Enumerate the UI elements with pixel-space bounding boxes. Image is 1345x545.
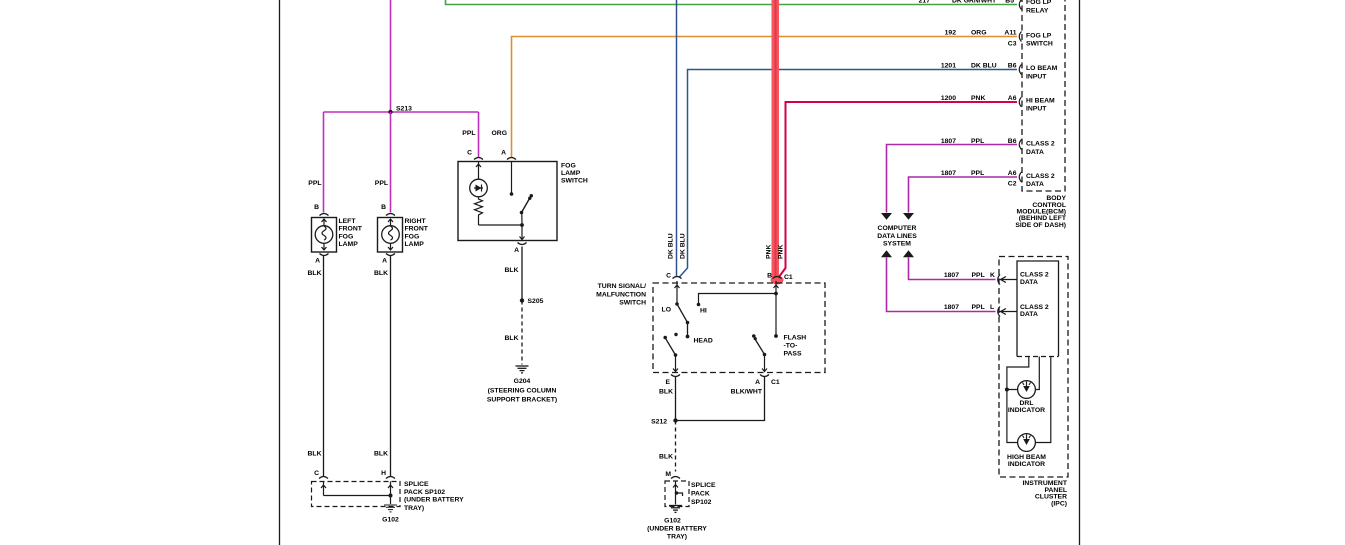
svg-text:1807: 1807 bbox=[941, 170, 956, 177]
head switch lower blade bbox=[674, 333, 677, 336]
wire BLK/WHT switch A to S212 bbox=[676, 377, 765, 421]
svg-text:B6: B6 bbox=[1008, 63, 1017, 70]
svg-text:ORG: ORG bbox=[971, 30, 986, 37]
fog switch indicator LED symbol bbox=[474, 185, 483, 192]
svg-text:(UNDER BATTERY: (UNDER BATTERY bbox=[404, 497, 464, 504]
svg-text:FLASH: FLASH bbox=[784, 335, 807, 342]
splice left junction dot bbox=[389, 494, 393, 498]
svg-text:L: L bbox=[990, 304, 994, 311]
flash-to-pass contact dot bbox=[774, 334, 778, 338]
svg-text:RIGHT: RIGHT bbox=[405, 218, 427, 225]
svg-text:FOG: FOG bbox=[405, 233, 420, 240]
splice left bus bbox=[324, 495, 391, 497]
svg-text:HI BEAM: HI BEAM bbox=[1026, 97, 1055, 104]
svg-text:PPL: PPL bbox=[972, 272, 985, 279]
svg-text:(STEERING COLUMN: (STEERING COLUMN bbox=[488, 388, 557, 395]
right fog lamp box bbox=[378, 218, 403, 253]
highlight blob at connector B bbox=[771, 276, 784, 285]
svg-text:DK BLU: DK BLU bbox=[680, 233, 687, 259]
svg-text:FOG: FOG bbox=[561, 162, 576, 169]
connector arc A fog lamp switch bbox=[507, 158, 516, 160]
splice pack SP102 left dashed box bbox=[312, 482, 401, 507]
svg-text:RELAY: RELAY bbox=[1026, 8, 1049, 15]
connector arc L bbox=[998, 307, 1000, 317]
fog lamp switch box bbox=[458, 162, 557, 241]
wire ORG from BCM fog lp switch row to switch A bbox=[512, 37, 1018, 158]
svg-text:LO: LO bbox=[662, 307, 671, 314]
splice left C entry arrow bbox=[321, 482, 326, 496]
svg-text:SWITCH: SWITCH bbox=[561, 178, 588, 185]
left fog lamp pin arrow B bbox=[322, 219, 327, 226]
svg-text:A: A bbox=[514, 247, 519, 254]
node S212 bbox=[673, 418, 677, 422]
svg-text:B: B bbox=[767, 273, 772, 280]
connector arc A bottom fog switch bbox=[518, 243, 527, 245]
svg-text:PNK: PNK bbox=[778, 245, 785, 259]
svg-text:PPL: PPL bbox=[308, 180, 321, 187]
svg-text:A: A bbox=[315, 258, 320, 265]
svg-text:DATA: DATA bbox=[1020, 279, 1038, 286]
HIGH BEAM indicator lamp bbox=[1018, 434, 1036, 452]
svg-text:A: A bbox=[755, 379, 760, 386]
svg-text:DATA: DATA bbox=[1020, 311, 1038, 318]
svg-text:LAMP: LAMP bbox=[405, 241, 425, 248]
svg-text:PNK: PNK bbox=[971, 95, 985, 102]
wire BLK dashed S205 to G204 bbox=[521, 301, 523, 365]
svg-text:CLASS 2: CLASS 2 bbox=[1026, 173, 1055, 180]
left fog lamp bulb bbox=[315, 226, 333, 244]
connector arc B left fog lamp bbox=[320, 214, 329, 216]
wire PPL from top to S213 bbox=[390, 0, 392, 112]
svg-text:C3: C3 bbox=[1008, 41, 1017, 48]
svg-text:A11: A11 bbox=[1004, 30, 1016, 37]
svg-text:H: H bbox=[381, 470, 386, 477]
svg-text:SPLICE: SPLICE bbox=[404, 481, 429, 488]
svg-text:CLASS 2: CLASS 2 bbox=[1020, 272, 1049, 279]
svg-text:1807: 1807 bbox=[944, 304, 959, 311]
svg-text:FRONT: FRONT bbox=[405, 226, 429, 233]
splice left H entry arrow bbox=[388, 482, 393, 505]
ground G204 bbox=[516, 366, 529, 373]
fog switch exit arrow to A bbox=[520, 237, 525, 240]
svg-text:217: 217 bbox=[919, 0, 931, 5]
HEAD contact dot bbox=[686, 335, 690, 339]
svg-text:M: M bbox=[665, 471, 671, 478]
svg-text:1807: 1807 bbox=[944, 272, 959, 279]
svg-text:DATA: DATA bbox=[1026, 181, 1044, 188]
svg-text:SPLICE: SPLICE bbox=[691, 482, 716, 489]
svg-text:TRAY): TRAY) bbox=[404, 505, 424, 512]
svg-text:DK BLU: DK BLU bbox=[971, 63, 997, 70]
LO-HEAD wiper blade bbox=[677, 304, 688, 336]
wire PNK 2 hi beam input bbox=[779, 102, 1018, 278]
arrow down data line 1 bbox=[881, 213, 892, 220]
left fog lamp pin arrow A bbox=[322, 244, 327, 251]
svg-text:SWITCH: SWITCH bbox=[619, 300, 646, 307]
splice right entry arrow and bus bbox=[673, 481, 678, 505]
svg-text:TRAY): TRAY) bbox=[667, 534, 687, 541]
svg-text:BLK: BLK bbox=[659, 389, 673, 396]
wire PPL class 2 data A6 bbox=[909, 177, 1018, 213]
frame left border bbox=[279, 0, 281, 545]
svg-text:BLK: BLK bbox=[374, 451, 388, 458]
right fog lamp filament bbox=[389, 226, 393, 240]
svg-text:E: E bbox=[665, 379, 670, 386]
BCM dashed box bbox=[1022, 0, 1065, 191]
B junction dot bbox=[774, 292, 778, 296]
connector arc K bbox=[998, 275, 1000, 285]
connector arc A right fog lamp bbox=[386, 254, 395, 256]
wire PPL class 2 data L bbox=[887, 258, 996, 312]
splice right side stub bbox=[676, 493, 683, 496]
connector arc class2 A6 bbox=[1019, 172, 1021, 182]
wire BLK fog switch A to S205 bbox=[521, 247, 523, 301]
IPC outer dashed box bbox=[999, 257, 1068, 478]
wire PPL S213 horizontal bus bbox=[324, 111, 479, 113]
connector arc B turn switch bbox=[773, 277, 782, 279]
IPC lamp feed wiring left bbox=[1007, 357, 1029, 443]
svg-text:B: B bbox=[381, 204, 386, 211]
svg-text:SYSTEM: SYSTEM bbox=[883, 241, 911, 248]
connector arc M splice right bbox=[671, 477, 680, 479]
svg-text:PACK SP102: PACK SP102 bbox=[404, 489, 445, 496]
LO contact dot bbox=[675, 302, 679, 306]
flash-to-pass blade bbox=[755, 339, 765, 355]
svg-text:CLASS 2: CLASS 2 bbox=[1020, 304, 1049, 311]
connector arc A left fog lamp bbox=[320, 254, 329, 256]
svg-text:BLK: BLK bbox=[308, 270, 322, 277]
left fog lamp filament bbox=[322, 226, 326, 240]
svg-text:C: C bbox=[314, 470, 319, 477]
svg-text:BLK: BLK bbox=[374, 270, 388, 277]
fog switch ORG contact wire and dot bbox=[511, 162, 513, 194]
right fog lamp pin arrow B bbox=[388, 219, 393, 226]
IPC K lead with arrow bbox=[999, 277, 1017, 283]
connector arc A bottom turn switch bbox=[760, 375, 769, 377]
ground G102 right bbox=[669, 505, 682, 507]
svg-text:C1: C1 bbox=[771, 379, 780, 386]
turn signal switch dashed box bbox=[653, 283, 825, 373]
svg-text:LEFT: LEFT bbox=[339, 218, 357, 225]
head switch wire to E with exit arrow bbox=[673, 355, 678, 372]
svg-text:ORG: ORG bbox=[492, 130, 507, 137]
svg-text:BLK/WHT: BLK/WHT bbox=[731, 389, 763, 396]
svg-text:G102: G102 bbox=[382, 516, 399, 523]
connector arc lo beam B6 bbox=[1019, 65, 1021, 75]
svg-text:BLK: BLK bbox=[308, 451, 322, 458]
connector arc fog lp relay bbox=[1019, 0, 1021, 10]
svg-text:INPUT: INPUT bbox=[1026, 74, 1047, 81]
connector arc C turn switch bbox=[673, 277, 682, 279]
svg-text:FOG LP: FOG LP bbox=[1026, 32, 1052, 39]
wire BLK right fog lamp to splice H bbox=[390, 256, 392, 477]
svg-text:PPL: PPL bbox=[972, 304, 985, 311]
svg-text:BLK: BLK bbox=[659, 454, 673, 461]
turn switch C entry wire arrow bbox=[675, 281, 680, 304]
frame right border bbox=[1079, 0, 1081, 545]
IPC inner class 2 box bbox=[1017, 261, 1059, 357]
svg-text:1200: 1200 bbox=[941, 95, 956, 102]
connector arc fog lp switch A11 bbox=[1019, 32, 1021, 42]
svg-text:INDICATOR: INDICATOR bbox=[1008, 407, 1045, 414]
DRL row wire bbox=[1007, 357, 1039, 390]
svg-text:(IPC): (IPC) bbox=[1051, 500, 1067, 507]
svg-text:A6: A6 bbox=[1008, 95, 1017, 102]
connector arc H splice left bbox=[386, 477, 395, 479]
wire DK BLU 2 lo beam input bbox=[679, 70, 1017, 278]
svg-text:INPUT: INPUT bbox=[1026, 106, 1047, 113]
svg-text:C2: C2 bbox=[1008, 181, 1017, 188]
svg-text:1807: 1807 bbox=[941, 138, 956, 145]
svg-text:C1: C1 bbox=[784, 274, 793, 281]
wire DK GRN/WHT fog lp relay row bbox=[446, 0, 1018, 5]
svg-text:LO BEAM: LO BEAM bbox=[1026, 65, 1058, 72]
connector arc hi beam A6 bbox=[1019, 97, 1021, 107]
wire PPL to right fog lamp B bbox=[390, 112, 392, 213]
HI contact dot and tie to B bbox=[697, 303, 701, 307]
svg-text:G102: G102 bbox=[664, 518, 681, 525]
HIGH BEAM row wire bbox=[1035, 357, 1050, 443]
svg-text:C: C bbox=[666, 273, 671, 280]
svg-text:B5: B5 bbox=[1005, 0, 1014, 5]
arrow up data line 3 bbox=[881, 250, 892, 257]
svg-text:HEAD: HEAD bbox=[694, 338, 713, 345]
svg-text:DATA LINES: DATA LINES bbox=[877, 233, 917, 240]
right fog lamp bulb bbox=[382, 226, 400, 244]
svg-text:PPL: PPL bbox=[971, 138, 984, 145]
svg-text:K: K bbox=[990, 272, 995, 279]
connector arc E bottom turn switch bbox=[671, 375, 680, 377]
svg-text:192: 192 bbox=[945, 30, 957, 37]
svg-text:HI: HI bbox=[700, 308, 707, 315]
svg-text:SWITCH: SWITCH bbox=[1026, 41, 1053, 48]
svg-text:LAMP: LAMP bbox=[561, 170, 581, 177]
fog switch blade bbox=[522, 199, 530, 213]
connector arc C fog lamp switch bbox=[474, 158, 483, 160]
svg-text:COMPUTER: COMPUTER bbox=[878, 225, 917, 232]
svg-text:-TO-: -TO- bbox=[784, 343, 798, 350]
ground G102 left bbox=[384, 504, 397, 506]
connector arc B right fog lamp bbox=[386, 214, 395, 216]
svg-text:PASS: PASS bbox=[784, 351, 802, 358]
svg-text:S205: S205 bbox=[528, 298, 544, 305]
wire PNK 1 from top to switch B (highlighted) bbox=[775, 0, 777, 277]
left fog lamp box bbox=[312, 218, 337, 253]
svg-text:CLASS 2: CLASS 2 bbox=[1026, 141, 1055, 148]
wire BLK left fog lamp to splice C bbox=[323, 256, 325, 477]
fog switch bottom wire to A bbox=[479, 225, 523, 241]
connector arc class2 B6 bbox=[1019, 140, 1021, 150]
svg-text:S212: S212 bbox=[651, 419, 667, 426]
svg-text:B6: B6 bbox=[1008, 138, 1017, 145]
right fog lamp pin arrow A bbox=[388, 244, 393, 251]
wire DK BLU 1 from top to switch C bbox=[676, 0, 678, 276]
svg-text:PPL: PPL bbox=[462, 130, 475, 137]
node S213 bbox=[388, 110, 392, 114]
svg-text:A: A bbox=[382, 258, 387, 265]
wire PPL to left fog lamp B bbox=[323, 112, 325, 213]
svg-text:MALFUNCTION: MALFUNCTION bbox=[596, 291, 646, 298]
svg-text:S213: S213 bbox=[396, 105, 412, 112]
svg-text:B: B bbox=[314, 204, 319, 211]
fog switch resistor bbox=[475, 197, 483, 225]
svg-text:(UNDER BATTERY: (UNDER BATTERY bbox=[647, 526, 707, 533]
wire BLK switch E to S212 bbox=[675, 377, 677, 421]
svg-text:SP102: SP102 bbox=[691, 499, 712, 506]
turn switch B entry wire arrow bbox=[774, 281, 779, 336]
svg-text:PACK: PACK bbox=[691, 491, 710, 498]
DRL tap junction dot bbox=[1005, 388, 1009, 392]
IPC L lead with arrow bbox=[999, 309, 1017, 315]
svg-text:PPL: PPL bbox=[375, 180, 388, 187]
wire PPL to fog lamp switch C bbox=[478, 112, 480, 157]
fog switch junction dot bbox=[520, 223, 524, 227]
svg-text:DRL: DRL bbox=[1020, 400, 1034, 407]
svg-text:HIGH BEAM: HIGH BEAM bbox=[1007, 454, 1046, 461]
svg-text:DK GRN/WHT: DK GRN/WHT bbox=[952, 0, 997, 5]
highlight band over PNK wire 1 bbox=[772, 0, 780, 277]
svg-text:G204: G204 bbox=[514, 378, 531, 385]
arrow down data line 2 bbox=[903, 213, 914, 220]
splice pack SP102 right dashed box bbox=[665, 481, 689, 507]
svg-text:TURN SIGNAL/: TURN SIGNAL/ bbox=[598, 283, 646, 290]
svg-text:FRONT: FRONT bbox=[339, 226, 363, 233]
flash-to-pass wire to A with exit arrow bbox=[762, 355, 767, 373]
wire PPL class 2 data K bbox=[909, 258, 996, 280]
wire BLK dashed S212 to splice M bbox=[675, 421, 677, 472]
svg-text:LAMP: LAMP bbox=[339, 241, 359, 248]
DRL indicator lamp bbox=[1018, 381, 1036, 399]
node S205 bbox=[520, 298, 524, 302]
svg-text:DATA: DATA bbox=[1026, 149, 1044, 156]
svg-text:DK BLU: DK BLU bbox=[668, 233, 675, 259]
fog switch C entry wire and arrow bbox=[476, 162, 481, 180]
connector arc C splice left bbox=[319, 477, 328, 479]
svg-text:A6: A6 bbox=[1008, 170, 1017, 177]
arrow up data line 4 bbox=[903, 250, 914, 257]
svg-text:PNK: PNK bbox=[766, 245, 773, 259]
wire PPL class 2 data B6 bbox=[887, 145, 1018, 213]
svg-text:INDICATOR: INDICATOR bbox=[1008, 461, 1045, 468]
svg-text:SIDE OF DASH): SIDE OF DASH) bbox=[1015, 222, 1066, 229]
svg-text:BLK: BLK bbox=[505, 267, 519, 274]
svg-text:SUPPORT BRACKET): SUPPORT BRACKET) bbox=[487, 397, 557, 404]
svg-text:FOG LP: FOG LP bbox=[1026, 0, 1052, 6]
fog switch indicator lamp circle bbox=[470, 179, 488, 197]
svg-text:BLK: BLK bbox=[505, 335, 519, 342]
svg-text:C: C bbox=[467, 150, 472, 157]
svg-text:FOG: FOG bbox=[339, 233, 354, 240]
svg-text:A: A bbox=[501, 150, 506, 157]
svg-text:PPL: PPL bbox=[971, 170, 984, 177]
svg-text:1201: 1201 bbox=[941, 63, 956, 70]
